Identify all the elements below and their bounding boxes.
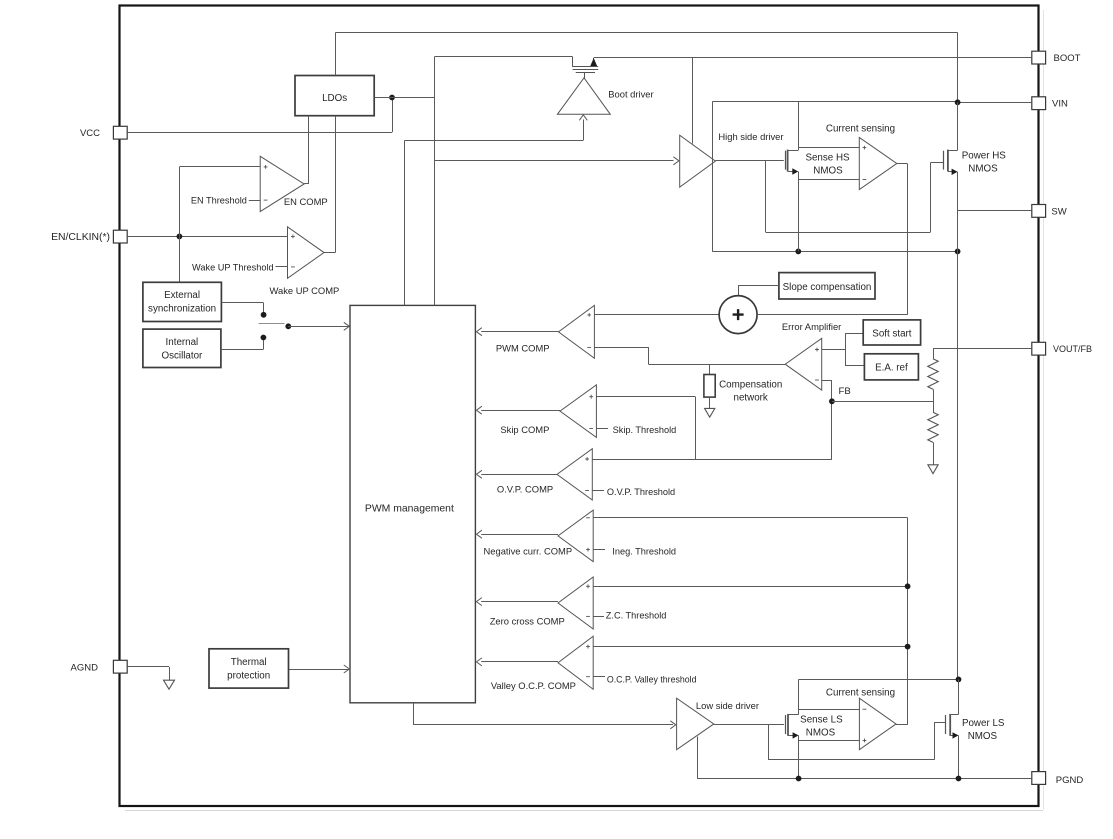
svg-text:PGND: PGND: [1056, 775, 1084, 786]
Zero cross COMP output arrow: [476, 598, 482, 606]
pin EN/CLKIN(*): [113, 230, 127, 243]
svg-text:protection: protection: [227, 670, 270, 681]
wire HS cell bottom rail: [712, 251, 957, 253]
svg-text:VOUT/FB: VOUT/FB: [1053, 344, 1092, 354]
ldo box LDOs: [295, 76, 374, 116]
transistor Sense HS NMOS: [785, 151, 787, 170]
wire LS driver ground stem: [697, 737, 699, 779]
node Valley tap: [905, 644, 911, 650]
wire Ineg threshold dash: [593, 549, 605, 551]
wire summer to HS sense column: [757, 314, 908, 316]
svg-text:Thermal: Thermal: [231, 657, 267, 668]
wire VOUT/FB lead: [933, 348, 1032, 350]
comparator Skip COMP: [560, 385, 596, 438]
transistor Sense LS NMOS: [785, 715, 787, 734]
svg-text:Slope compensation: Slope compensation: [783, 282, 872, 293]
comparator Negative curr. COMP: [558, 510, 593, 561]
wire LS comp plus input: [799, 740, 860, 742]
transistor boot switch: [572, 57, 574, 67]
comparator PWM COMP: [559, 305, 595, 358]
svg-text:O.V.P. COMP: O.V.P. COMP: [497, 483, 553, 494]
svg-text:network: network: [734, 392, 768, 403]
wire HS driver gate bus: [715, 160, 783, 162]
svg-text:NMOS: NMOS: [968, 163, 998, 174]
wire EN/CLKIN line: [128, 236, 288, 238]
Sense LS source arrow: [793, 732, 799, 738]
svg-text:Skip COMP: Skip COMP: [500, 424, 549, 435]
node ZC tap: [905, 583, 911, 589]
wire boot switch supply riser: [434, 56, 572, 58]
node FB junction: [829, 398, 835, 404]
svg-text:Ineg. Threshold: Ineg. Threshold: [612, 547, 676, 557]
wire VCC line: [128, 132, 393, 134]
svg-text:Current sensing: Current sensing: [826, 688, 895, 699]
wire ZC plus input: [593, 586, 907, 588]
wire PWM COMP minus input: [594, 347, 648, 349]
block Soft start: [863, 320, 920, 345]
transistor Power HS NMOS: [943, 151, 945, 170]
wire HS comp plus input: [798, 147, 859, 149]
boot driver input arrow: [579, 115, 587, 121]
wire int osc to switch: [221, 349, 264, 351]
wire HS gate jog: [765, 161, 767, 232]
wire Wake UP COMP output: [324, 252, 335, 254]
wire top rail to BOOT column: [335, 32, 957, 34]
wire compensation network lower stem: [709, 397, 711, 408]
block Slope compensation: [779, 273, 875, 299]
node switch contact lower: [261, 335, 267, 341]
svg-text:O.C.P. Valley threshold: O.C.P. Valley threshold: [607, 674, 697, 684]
wire HS sense output column: [907, 164, 909, 315]
wire LS comp output: [896, 724, 908, 726]
wire FB line: [832, 401, 933, 403]
wire Ineg minus input: [593, 517, 907, 519]
wire sense LS source drop: [798, 735, 800, 778]
pin VCC: [113, 126, 127, 139]
svg-text:Power LS: Power LS: [962, 718, 1005, 729]
Wake UP COMP minus: [291, 266, 295, 268]
wire sense LS drain riser: [798, 679, 800, 714]
wire LS comp minus input: [799, 709, 860, 711]
svg-text:High side driver: High side driver: [718, 131, 783, 142]
wire LS sense feedback column: [907, 518, 909, 725]
svg-text:Sense HS: Sense HS: [805, 152, 850, 163]
wire LDOs output: [374, 97, 434, 99]
LS driver input arrow: [670, 721, 676, 729]
svg-text:Skip. Threshold: Skip. Threshold: [613, 425, 677, 435]
wire boot driver input stem: [583, 120, 585, 141]
node PGND power tap: [956, 776, 962, 782]
svg-text:Oscillator: Oscillator: [161, 351, 203, 362]
wire PGND rail: [697, 778, 1032, 780]
svg-text:E.A. ref: E.A. ref: [875, 362, 908, 373]
svg-text:EN/CLKIN(*): EN/CLKIN(*): [51, 232, 110, 243]
svg-text:AGND: AGND: [71, 662, 99, 673]
boot switch drain arrow: [590, 58, 597, 66]
Power LS source arrow: [953, 732, 959, 738]
resistor compensation network stem: [709, 365, 711, 375]
wire SW lead: [958, 210, 1032, 212]
svg-text:Low side driver: Low side driver: [696, 700, 759, 711]
wire Valley plus input: [593, 646, 907, 648]
svg-text:LDOs: LDOs: [322, 93, 347, 104]
thermal input arrow: [344, 665, 350, 673]
wire LS cell top rail: [799, 679, 959, 681]
wire HS-driver control drop: [434, 57, 436, 306]
block PWM management: [350, 305, 475, 702]
svg-text:EN COMP: EN COMP: [284, 196, 328, 207]
wire HS comp minus input: [798, 179, 859, 181]
wire OVP threshold dash: [592, 490, 604, 492]
node PGND sense tap: [796, 776, 802, 782]
svg-text:synchronization: synchronization: [148, 304, 216, 315]
pin PGND: [1032, 772, 1046, 785]
block E.A. ref: [864, 354, 918, 380]
wire BOOT column drop: [957, 33, 959, 103]
wire divider lower stem: [933, 442, 935, 464]
driver U-HS high side driver: [680, 135, 716, 187]
comparator HS current sensing: [859, 138, 897, 190]
Skip COMP output arrow: [476, 406, 482, 414]
error amp plus: [815, 348, 819, 352]
pin AGND: [113, 660, 127, 673]
ground compensation network: [705, 408, 715, 417]
op-amp boot driver: [557, 78, 610, 115]
comparator Valley O.C.P. COMP: [558, 636, 593, 689]
switch lever: [259, 323, 285, 325]
svg-text:NMOS: NMOS: [806, 727, 836, 738]
svg-text:Wake UP COMP: Wake UP COMP: [269, 285, 339, 296]
wire Skip COMP plus input: [596, 396, 695, 398]
wire BOOT line: [594, 57, 1032, 59]
wire power HS drain riser: [957, 102, 959, 150]
svg-text:Error Amplifier: Error Amplifier: [782, 321, 841, 332]
HS driver input arrow: [673, 157, 679, 165]
wire LDOs top stem: [335, 33, 337, 76]
node LDO output junction: [389, 95, 395, 101]
svg-text:Wake UP Threshold: Wake UP Threshold: [192, 262, 274, 272]
node HS bottom SW tap: [955, 249, 961, 255]
wire skip threshold dash: [596, 428, 608, 430]
svg-text:PWM management: PWM management: [365, 503, 454, 514]
wire ZC threshold dash: [593, 616, 604, 618]
wire sense HS drain riser: [798, 102, 800, 150]
ground divider arrow: [928, 465, 938, 474]
Negative curr. COMP output arrow: [476, 530, 482, 538]
wire valley threshold dash: [593, 676, 605, 678]
EN COMP minus: [264, 199, 268, 201]
ground AGND: [164, 680, 175, 689]
pin BOOT: [1032, 51, 1046, 64]
svg-text:Internal: Internal: [166, 337, 199, 348]
svg-text:FB: FB: [839, 386, 851, 397]
wire PWM to LS driver: [413, 703, 415, 725]
svg-text:NMOS: NMOS: [813, 165, 843, 176]
svg-text:Z.C. Threshold: Z.C. Threshold: [606, 610, 667, 620]
wire power LS drain riser: [958, 679, 960, 714]
Valley O.C.P. COMP output arrow: [476, 658, 482, 666]
wire VIN lead: [958, 102, 1032, 104]
oscillator input arrow: [344, 322, 350, 330]
wire LS driver gate bus: [714, 724, 784, 726]
svg-text:External: External: [164, 290, 200, 301]
wire wake threshold dash: [276, 266, 288, 268]
comparator O.V.P. COMP: [557, 449, 592, 500]
svg-text:Negative curr. COMP: Negative curr. COMP: [484, 546, 573, 557]
wire power LS source drop: [958, 735, 960, 778]
op-amp error amplifier: [785, 338, 822, 390]
wire EA plus input: [822, 349, 845, 351]
wire HS cell left edge: [712, 102, 714, 252]
resistor R1 divider top: [928, 359, 938, 389]
comparator Zero cross COMP: [558, 577, 593, 629]
wire sense HS source drop: [798, 172, 800, 252]
node VIN junction: [955, 99, 961, 105]
svg-text:Soft start: Soft start: [872, 328, 911, 339]
O.V.P. COMP output arrow: [476, 470, 482, 478]
svg-text:Power HS: Power HS: [962, 150, 1007, 161]
wire VCC riser to LDO output: [392, 98, 394, 133]
PWM COMP output arrow: [476, 328, 482, 336]
svg-text:VCC: VCC: [80, 128, 100, 139]
svg-text:Boot driver: Boot driver: [608, 89, 653, 100]
svg-text:Sense LS: Sense LS: [800, 714, 843, 725]
transistor Power LS NMOS: [945, 715, 947, 734]
IC boundary frame: [120, 6, 1039, 807]
wire HS comp output: [897, 163, 908, 165]
block External synchronization: [143, 282, 222, 321]
resistor compensation network: [704, 375, 715, 398]
wire soft start / EA ref bus: [845, 333, 847, 366]
EN COMP plus: [264, 165, 268, 169]
svg-text:O.V.P. Threshold: O.V.P. Threshold: [607, 487, 675, 497]
wire SW column: [957, 251, 959, 680]
svg-text:NMOS: NMOS: [968, 731, 998, 742]
svg-text:SW: SW: [1051, 206, 1066, 217]
wire EN threshold dash: [249, 200, 260, 202]
block Internal Oscillator: [143, 329, 221, 367]
wire OVP plus input (FB): [592, 459, 832, 461]
wire oscillator to PWM management: [288, 326, 350, 328]
comparator EN COMP: [260, 156, 304, 211]
node EN junction: [177, 234, 183, 240]
wire PWM COMP plus input: [594, 314, 719, 316]
wire slope comp to summer: [738, 285, 779, 287]
svg-text:Zero cross COMP: Zero cross COMP: [490, 615, 565, 626]
wire AGND lead: [128, 666, 170, 668]
Sense HS source arrow: [792, 168, 798, 174]
wire EA minus to FB: [822, 380, 832, 382]
svg-text:Current sensing: Current sensing: [826, 123, 895, 134]
pin SW: [1032, 205, 1046, 218]
node LS top SW tap: [956, 677, 962, 683]
resistor R2 divider bottom: [928, 412, 938, 442]
wire BOOT to HS driver: [692, 57, 694, 144]
driver U-LS low side driver: [677, 698, 714, 750]
comparator LS current sensing: [859, 698, 896, 750]
node HS bottom sense tap: [795, 249, 801, 255]
wire LS gate jog: [768, 725, 770, 760]
wire HS driver feed: [434, 160, 673, 162]
svg-text:PWM COMP: PWM COMP: [496, 343, 550, 354]
wire EN sync drop: [179, 236, 181, 282]
svg-text:Compensation: Compensation: [719, 379, 782, 390]
pin VIN: [1032, 97, 1046, 110]
svg-text:Valley O.C.P. COMP: Valley O.C.P. COMP: [491, 680, 576, 691]
block Thermal protection: [209, 649, 289, 688]
wire thermal to PWM: [289, 669, 349, 671]
wire divider middle: [933, 389, 935, 412]
error amp minus: [815, 379, 819, 381]
node switch common: [285, 323, 291, 329]
wire power HS source drop: [957, 172, 959, 252]
svg-text:EN Threshold: EN Threshold: [191, 196, 247, 206]
Power HS source arrow: [952, 169, 958, 175]
comparator Wake UP COMP: [288, 227, 325, 278]
Wake UP COMP plus: [291, 235, 295, 239]
svg-text:VIN: VIN: [1052, 99, 1068, 110]
pin VOUT/FB: [1032, 342, 1046, 355]
wire HS cell top rail: [712, 101, 957, 103]
svg-text:BOOT: BOOT: [1054, 53, 1081, 64]
wire EN riser: [179, 167, 181, 237]
wire EN COMP output: [304, 183, 309, 185]
wire boot-driver control drop: [404, 140, 406, 305]
wire ext sync to switch: [221, 302, 263, 304]
summer node: [719, 296, 757, 334]
node switch contact upper: [261, 312, 267, 318]
